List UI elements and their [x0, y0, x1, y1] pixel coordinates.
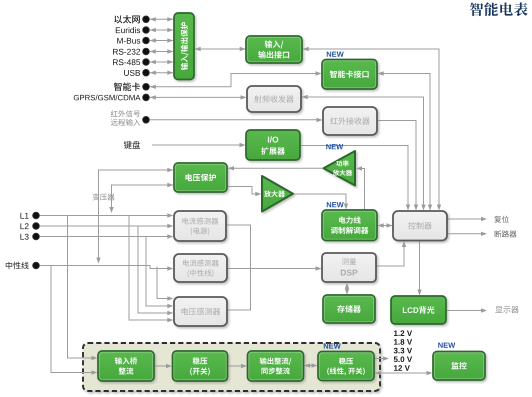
- label remote input 远程输入: [111, 119, 140, 126]
- terminal L3: [33, 233, 40, 240]
- wire controller to LCD backlight: [417, 241, 421, 296]
- terminal Ethernet: [143, 16, 150, 23]
- label USB: [124, 70, 140, 76]
- wire comm port 3 to I/O protection: [150, 38, 174, 42]
- wire I/O interface to controller: [303, 47, 442, 211]
- label Ethernet 以太网: [114, 15, 140, 23]
- wire voltage protection to amplifier: [228, 187, 262, 197]
- wire power amplifier to voltage protection: [228, 166, 323, 170]
- block output rectifier 输出整流/同步整流: [248, 351, 304, 381]
- wire comm port 6 to I/O protection: [150, 71, 174, 75]
- block memory 存储器: [323, 295, 375, 323]
- wire comm port 5 to I/O protection: [150, 60, 174, 64]
- terminal neutral: [33, 262, 40, 269]
- power amplifier 功率放大器 (triangle): [324, 151, 356, 186]
- block I/O protection 输入/输出保护 (vertical): [174, 13, 194, 80]
- block supervisor 监控: [433, 352, 485, 381]
- wire transformer tap neutral to voltage protection: [96, 168, 173, 264]
- label NEW (power amplifier): [326, 144, 343, 149]
- wire input bridge rectifier to switching regulator: [155, 364, 173, 368]
- wire measurement DSP to controller: [377, 241, 407, 266]
- label L2: [20, 223, 28, 229]
- label keypad 键盘: [124, 141, 140, 149]
- wire L2 line to current sensor: [40, 224, 174, 228]
- wire IR receiver to controller: [378, 121, 419, 211]
- wire L1 tap to voltage sensor: [129, 216, 173, 323]
- label supply rail 1.2 V: [394, 330, 412, 336]
- label supply rail 3.3 V: [394, 348, 412, 354]
- wire keypad to I/O expander: [152, 143, 246, 147]
- label GPRS/GSM/CDMA: [74, 95, 141, 101]
- label L3: [20, 234, 28, 240]
- label NEW (linear regulator): [324, 343, 341, 348]
- block I/O expander I/O 扩展器: [246, 130, 300, 160]
- title 智能电表: [470, 2, 528, 16]
- label circuit breaker 断路器: [495, 230, 517, 237]
- wire comm port 1 to I/O protection: [150, 17, 174, 21]
- label transformer 变压器: [93, 193, 115, 200]
- block voltage sensor 电压感测器: [174, 297, 227, 326]
- wire current sensor output bus: [227, 225, 251, 310]
- terminal IR input: [143, 116, 150, 123]
- wire I/O expander to controller: [301, 146, 411, 211]
- wire sensors to measurement DSP: [228, 266, 322, 270]
- block IR receiver 红外接收器: [323, 107, 377, 135]
- terminal L2: [33, 223, 40, 230]
- wire linear regulator to supervisor: [375, 371, 433, 375]
- block LCD backlight LCD背光: [391, 296, 446, 324]
- terminal USB: [143, 69, 150, 76]
- wire IR signal to IR receiver: [150, 118, 323, 122]
- terminal M-Bus: [143, 37, 150, 44]
- terminal RS-232: [143, 48, 150, 55]
- wire transformer tap L1 to voltage protection: [109, 183, 173, 213]
- wire L2 tap to voltage sensor: [138, 226, 173, 315]
- wire smart card interface to controller: [378, 71, 433, 210]
- wire L1 line to current sensor: [40, 213, 174, 217]
- block switching regulator 稳压(开关): [173, 351, 228, 381]
- wire L1 tap to input bridge rectifier: [68, 216, 98, 361]
- label NEW (smart card interface): [327, 52, 344, 57]
- wire smart card to smart card interface: [150, 71, 322, 89]
- label RS-485: [113, 59, 140, 65]
- label M-Bus: [117, 38, 140, 44]
- block RF transceiver 射频收发器: [247, 86, 301, 112]
- label RS-232: [113, 49, 140, 55]
- wire LCD backlight to display: [447, 308, 488, 312]
- block current sensor (mains) 电流感测器(电源): [174, 211, 226, 241]
- wire controller to circuit breaker output: [448, 232, 488, 236]
- power-supply dashed region: [83, 343, 380, 391]
- wire comm port 2 to I/O protection: [150, 28, 174, 32]
- wire neutral tap to voltage sensor: [157, 267, 173, 301]
- block current sensor (neutral) 电流感测器(中性线): [174, 254, 227, 282]
- block PLC modem 电力线调制解调器: [322, 210, 377, 241]
- wire measurement DSP to memory: [345, 283, 349, 295]
- block input bridge rectifier 输入桥整流: [98, 351, 154, 381]
- wire PLC modem to controller: [378, 223, 393, 227]
- label IR signal 红外信号: [111, 110, 140, 117]
- block linear regulator 稳压(线性,开关): [318, 352, 374, 381]
- terminal smart card: [143, 83, 150, 90]
- label reset 复位: [494, 216, 509, 223]
- label NEW (PLC modem): [327, 202, 344, 207]
- wire comm port 4 to I/O protection: [150, 49, 174, 53]
- label L1: [20, 213, 28, 219]
- label supply rail 1.8 V: [394, 339, 412, 345]
- label Euridis: [116, 27, 140, 33]
- wire GPRS/GSM/CDMA to RF transceiver: [150, 95, 247, 99]
- wire regulator output to supply rails: [375, 356, 390, 360]
- wire L3 line to current sensor: [40, 234, 174, 238]
- amplifier 放大器 (triangle): [262, 176, 293, 212]
- block I/O interface 输入/输出接口: [246, 36, 302, 63]
- label supply rail 12 V: [394, 365, 410, 371]
- wire output rectifier to linear regulator: [304, 363, 317, 367]
- terminal GPRS: [143, 94, 150, 101]
- wire neutral line to neutral current sensor: [40, 266, 174, 271]
- terminal RS-485: [143, 59, 150, 66]
- label smart card 智能卡: [114, 82, 140, 90]
- wire neutral tap to input bridge rectifier: [51, 266, 98, 375]
- label supply rail 5.0 V: [394, 356, 412, 362]
- wire PLC modem to power amplifier: [356, 166, 365, 210]
- label NEW (supervisor): [438, 343, 455, 348]
- wire amplifier to PLC modem: [294, 194, 349, 210]
- wire I/O protection to I/O interface: [195, 47, 246, 51]
- block measurement DSP 测量DSP: [322, 253, 376, 282]
- terminal Euridis: [143, 27, 150, 34]
- label neutral 中性线: [6, 262, 29, 269]
- wire controller to reset output: [448, 217, 488, 221]
- block smart card interface 智能卡接口: [322, 60, 377, 90]
- wire switching regulator to output rectifier: [228, 364, 247, 368]
- block controller 控制器: [393, 211, 447, 241]
- label display 显示器: [495, 306, 518, 313]
- wire RF transceiver to controller: [302, 95, 426, 211]
- terminal L1: [33, 212, 40, 219]
- wire L3 tap to voltage sensor: [146, 237, 173, 309]
- block voltage protection 电压保护: [174, 163, 227, 192]
